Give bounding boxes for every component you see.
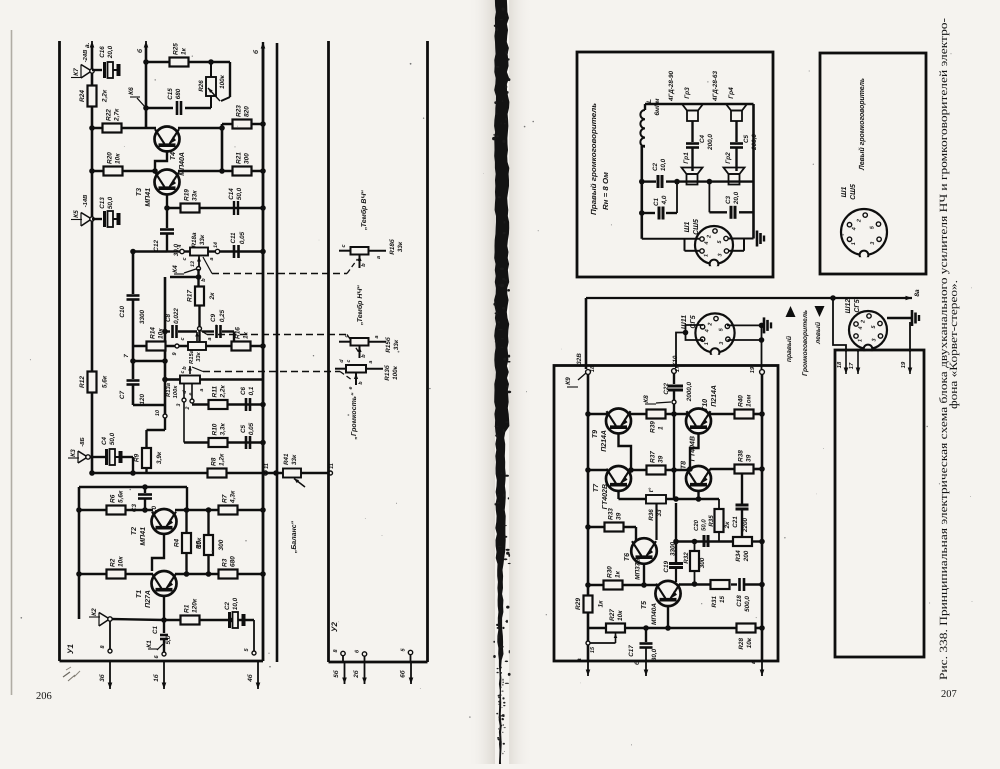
wire rail left speaker xyxy=(640,146,643,239)
svg-text:К4: К4 xyxy=(172,265,179,273)
node 11 right xyxy=(329,471,333,475)
wire xyxy=(625,627,737,630)
svg-text:фона «Корвет-стерео».: фона «Корвет-стерео». xyxy=(948,280,960,409)
svg-text:R23: R23 xyxy=(236,105,243,117)
wire xyxy=(132,457,134,473)
pin 18 arrow xyxy=(845,352,847,374)
svg-text:Ш1: Ш1 xyxy=(684,222,691,233)
svg-text:300: 300 xyxy=(218,539,225,550)
capacitor C1 with K1 xyxy=(163,620,165,633)
wire xyxy=(90,456,106,458)
transistor T3 xyxy=(155,170,180,195)
transistor T7 xyxy=(606,466,631,491)
svg-text:4ГД-28-63: 4ГД-28-63 xyxy=(712,71,719,102)
vertical wire x165 xyxy=(164,277,167,416)
svg-text:С5: С5 xyxy=(240,424,247,433)
svg-text:300: 300 xyxy=(699,557,706,568)
svg-text:2: 2 xyxy=(861,320,867,324)
wire xyxy=(167,207,263,210)
svg-text:2к: 2к xyxy=(724,521,731,530)
node 10 xyxy=(163,414,167,418)
contact K8 xyxy=(672,400,676,404)
svg-text:К9: К9 xyxy=(565,377,572,385)
svg-text:2,2к: 2,2к xyxy=(102,89,109,103)
svg-text:С7: С7 xyxy=(119,391,126,400)
svg-text:3300: 3300 xyxy=(670,542,677,557)
svg-text:R36: R36 xyxy=(648,509,655,521)
resistor R30 xyxy=(604,581,623,590)
capacitor C11 xyxy=(233,245,236,258)
wire x674 xyxy=(673,373,675,384)
svg-text:2200: 2200 xyxy=(742,518,749,534)
wire T6 base xyxy=(643,563,645,585)
wiper R13a xyxy=(189,366,191,374)
node 7 xyxy=(130,358,136,364)
svg-text:t°: t° xyxy=(648,487,655,492)
svg-text:2: 2 xyxy=(707,235,713,239)
svg-text:R33: R33 xyxy=(608,508,615,520)
node 6 u2 xyxy=(362,652,366,656)
svg-text:10к: 10к xyxy=(746,637,753,648)
svg-text:С6: С6 xyxy=(240,386,247,395)
svg-text:680: 680 xyxy=(230,556,237,567)
wire T1 base xyxy=(163,595,165,620)
svg-text:R1: R1 xyxy=(184,604,191,613)
potentiometer R13a xyxy=(180,376,200,384)
svg-text:R10: R10 xyxy=(212,423,219,435)
svg-text:120к: 120к xyxy=(192,598,199,613)
svg-text:0,25: 0,25 xyxy=(219,309,226,322)
svg-text:33к: 33к xyxy=(195,351,202,361)
resistor R28 xyxy=(737,624,756,633)
svg-text:120: 120 xyxy=(139,394,146,405)
wire rail right xyxy=(752,104,755,239)
inductor L xyxy=(644,104,646,110)
block left speaker border xyxy=(820,53,926,274)
svg-text:R6: R6 xyxy=(110,494,117,503)
svg-text:a: a xyxy=(376,256,382,259)
svg-text:4: 4 xyxy=(858,327,864,331)
svg-text:20,0: 20,0 xyxy=(107,45,114,59)
svg-text:20,0: 20,0 xyxy=(733,191,740,205)
svg-text:С19: С19 xyxy=(663,561,670,573)
wire xyxy=(92,170,156,173)
svg-text:„Тембр НЧ“: „Тембр НЧ“ xyxy=(356,285,364,326)
wire row1 xyxy=(588,413,607,416)
resistor R9 xyxy=(145,430,147,448)
svg-text:18: 18 xyxy=(589,365,596,372)
ground Sh12 xyxy=(887,317,912,319)
wire xyxy=(184,441,263,444)
svg-text:13: 13 xyxy=(190,261,196,267)
resistor R2 xyxy=(107,570,126,579)
capacitor C10 xyxy=(132,252,135,295)
svg-text:19: 19 xyxy=(900,361,907,368)
capacitor C14 xyxy=(233,201,235,215)
svg-text:L: L xyxy=(646,99,653,103)
capacitor C16 xyxy=(92,69,102,71)
svg-text:R16: R16 xyxy=(235,327,242,339)
capacitor C22 xyxy=(668,385,683,388)
resistor R23 xyxy=(233,120,252,129)
wire xyxy=(147,472,264,475)
wire right rail amp xyxy=(761,374,764,661)
svg-text:-24В: -24В xyxy=(82,50,89,63)
wire xyxy=(178,170,263,173)
capacitor C12 xyxy=(166,222,168,228)
svg-text:Т2: Т2 xyxy=(131,527,138,535)
wire xyxy=(679,583,710,586)
label pravyi arrow xyxy=(786,306,796,317)
wire row2 xyxy=(588,469,607,472)
resistor R12 xyxy=(88,372,97,393)
pin b arrow xyxy=(645,648,647,677)
pin 19 arrow xyxy=(909,352,911,374)
transistor T4 xyxy=(155,127,180,152)
contact K3 xyxy=(86,455,90,459)
label levyi arrow xyxy=(815,306,825,317)
svg-text:33к: 33к xyxy=(192,190,199,201)
svg-text:5,6к: 5,6к xyxy=(102,375,109,388)
svg-text:1: 1 xyxy=(658,426,665,430)
wire xyxy=(175,509,263,512)
pin 5b arrow xyxy=(342,656,344,662)
svg-text:6б: 6б xyxy=(400,669,407,678)
svg-text:Т8: Т8 xyxy=(681,461,688,469)
svg-text:С3: С3 xyxy=(131,504,138,513)
wire T3 base xyxy=(166,194,168,222)
connector Sh1 left box xyxy=(841,209,887,255)
svg-text:2: 2 xyxy=(857,219,863,223)
block right speaker border xyxy=(577,52,773,277)
wire xyxy=(192,403,263,406)
svg-text:С2: С2 xyxy=(652,162,659,171)
gutter shading left xyxy=(468,0,495,764)
wire x676 down xyxy=(675,503,677,563)
svg-text:a: a xyxy=(374,335,380,338)
wire top xyxy=(645,103,754,106)
svg-text:R34: R34 xyxy=(735,550,742,562)
node a arrow top xyxy=(91,41,93,58)
svg-text:„Громкость“: „Громкость“ xyxy=(351,392,358,440)
svg-text:R21: R21 xyxy=(236,152,243,164)
svg-text:4: 4 xyxy=(705,329,711,333)
svg-text:100к: 100к xyxy=(392,365,399,380)
node 6 xyxy=(162,652,166,656)
svg-text:50,0: 50,0 xyxy=(109,432,116,445)
svg-text:R40: R40 xyxy=(738,395,745,407)
node 8 u2 xyxy=(341,651,345,655)
wire xyxy=(642,238,700,240)
wire row3 R33 xyxy=(588,526,636,529)
wire balance xyxy=(263,472,328,475)
resistor R32 xyxy=(694,542,696,552)
svg-text:R22: R22 xyxy=(106,109,113,121)
svg-text:0,1: 0,1 xyxy=(248,386,255,395)
transistor T2 xyxy=(152,509,177,534)
svg-text:У2: У2 xyxy=(330,622,339,632)
svg-text:3: 3 xyxy=(870,242,876,245)
svg-text:1,2к: 1,2к xyxy=(219,453,226,466)
svg-text:820: 820 xyxy=(244,106,251,117)
speaker Gr1 xyxy=(682,168,703,175)
wire emitter node row xyxy=(676,540,733,542)
svg-text:1: 1 xyxy=(704,342,710,345)
svg-text:С10: С10 xyxy=(119,306,126,318)
resistor R31 xyxy=(711,580,730,589)
svg-text:R26: R26 xyxy=(198,80,205,92)
svg-text:c: c xyxy=(346,359,352,362)
svg-text:3: 3 xyxy=(719,342,725,345)
contact K7 xyxy=(90,69,94,73)
svg-text:R31: R31 xyxy=(711,596,718,608)
capacitor C2 speaker xyxy=(657,175,660,188)
svg-text:Т4: Т4 xyxy=(170,152,177,160)
svg-text:2б: 2б xyxy=(353,669,360,679)
capacitor C15 xyxy=(146,107,173,109)
svg-text:50,0: 50,0 xyxy=(701,519,708,531)
svg-text:0,05: 0,05 xyxy=(248,422,255,435)
svg-text:Правый громкоговоритель: Правый громкоговоритель xyxy=(589,103,598,215)
svg-text:R29: R29 xyxy=(575,598,582,610)
svg-text:Т7: Т7 xyxy=(593,483,600,492)
transistor T1 xyxy=(152,571,177,596)
svg-text:R19: R19 xyxy=(184,189,191,201)
svg-text:С3: С3 xyxy=(725,195,732,204)
svg-text:Гр2: Гр2 xyxy=(725,152,732,164)
svg-text:К3: К3 xyxy=(70,449,77,457)
svg-text:R9: R9 xyxy=(134,453,141,462)
svg-text:П214А: П214А xyxy=(711,385,718,407)
capacitor C7 xyxy=(132,361,135,379)
svg-text:К1: К1 xyxy=(146,640,153,648)
capacitor C21 xyxy=(741,473,743,504)
svg-text:„Баланс“: „Баланс“ xyxy=(291,520,298,554)
wire T4 base xyxy=(155,150,167,171)
wire xyxy=(110,619,164,620)
svg-text:10к: 10к xyxy=(158,328,165,339)
contact K2 xyxy=(108,617,112,621)
svg-text:СШ5: СШ5 xyxy=(850,184,857,200)
wire T10 base xyxy=(690,433,699,469)
svg-text:К5: К5 xyxy=(73,210,80,218)
wire node b xyxy=(170,276,199,279)
svg-text:Т3: Т3 xyxy=(136,188,143,196)
svg-text:300: 300 xyxy=(244,153,251,164)
svg-text:11: 11 xyxy=(264,463,270,469)
resistor R24 xyxy=(88,86,97,107)
resistor R1 xyxy=(181,616,200,625)
svg-text:1ом: 1ом xyxy=(746,394,753,407)
svg-text:2,2к: 2,2к xyxy=(220,384,227,398)
svg-text:С20: С20 xyxy=(693,519,700,531)
svg-text:правый: правый xyxy=(785,335,793,362)
svg-text:R20: R20 xyxy=(107,152,114,164)
svg-text:R15а: R15а xyxy=(189,349,195,364)
svg-text:3: 3 xyxy=(176,403,182,406)
wire xyxy=(79,509,153,512)
potentiometer R15a xyxy=(188,342,206,350)
potentiometer R15b xyxy=(351,338,369,346)
svg-text:С15: С15 xyxy=(167,88,174,100)
node 14 xyxy=(208,250,215,252)
svg-text:a: a xyxy=(207,337,213,340)
capacitor C13 xyxy=(92,218,102,220)
resistor R17 xyxy=(195,287,204,306)
svg-text:33к: 33к xyxy=(397,241,404,252)
wire T5 base xyxy=(667,606,669,628)
svg-text:a.: a. xyxy=(84,42,91,48)
resistor R33 xyxy=(605,523,624,532)
wire R25 to R26 loop xyxy=(229,62,231,97)
svg-text:Ш12: Ш12 xyxy=(845,299,852,314)
svg-text:10к: 10к xyxy=(617,610,624,621)
wire xyxy=(133,250,167,253)
svg-text:К2: К2 xyxy=(91,608,98,616)
svg-text:Т1: Т1 xyxy=(136,590,143,598)
svg-text:R18а: R18а xyxy=(191,232,198,248)
svg-text:ГТ404В: ГТ404В xyxy=(690,436,697,461)
speaker Gr3 xyxy=(682,104,703,111)
node 8 xyxy=(108,649,112,653)
wire xyxy=(92,127,156,130)
block U3 border xyxy=(554,366,778,662)
svg-text:4,3к: 4,3к xyxy=(230,490,237,504)
potentiometer R41 xyxy=(283,469,301,478)
wire xyxy=(133,345,263,348)
node 18 xyxy=(586,370,591,375)
pin 2b arrow xyxy=(364,656,366,662)
transistor T9 xyxy=(606,409,631,434)
svg-text:К6: К6 xyxy=(128,87,135,95)
resistor R4 xyxy=(185,510,187,533)
gutter shading right xyxy=(509,0,533,764)
contact K5 xyxy=(90,217,94,221)
block U4 border xyxy=(835,350,924,657)
svg-text:207: 207 xyxy=(941,689,957,700)
svg-text:3,9к: 3,9к xyxy=(156,451,163,464)
svg-text:1: 1 xyxy=(851,242,857,245)
node 3 xyxy=(182,398,186,402)
dashed link to R15b xyxy=(200,330,207,335)
svg-text:а: а xyxy=(576,658,583,662)
svg-text:33к: 33к xyxy=(291,454,298,465)
svg-text:1: 1 xyxy=(858,339,864,342)
pin 6b arrow xyxy=(410,655,412,662)
svg-text:-32В: -32В xyxy=(576,353,583,367)
svg-text:3: 3 xyxy=(718,254,724,257)
svg-text:30,0: 30,0 xyxy=(651,648,658,661)
svg-text:СГ5: СГ5 xyxy=(854,299,861,312)
svg-text:С9: С9 xyxy=(210,313,217,322)
svg-text:R4: R4 xyxy=(174,538,181,547)
resistor R34 xyxy=(733,537,752,546)
resistor R39 xyxy=(647,410,666,419)
svg-text:R2: R2 xyxy=(110,558,117,567)
svg-text:4: 4 xyxy=(852,227,858,231)
svg-text:R24: R24 xyxy=(79,90,86,102)
svg-text:18: 18 xyxy=(836,361,843,368)
svg-text:2к: 2к xyxy=(209,292,216,301)
svg-text:33к: 33к xyxy=(393,339,400,350)
svg-text:200: 200 xyxy=(743,550,750,562)
svg-text:R11: R11 xyxy=(212,386,219,398)
resistor R40 xyxy=(735,410,754,419)
ground Sh11 xyxy=(763,317,766,333)
wire T7 base xyxy=(617,490,619,499)
svg-text:100к: 100к xyxy=(172,385,179,399)
resistor R3 xyxy=(219,570,238,579)
wire top bus 8a xyxy=(586,297,912,299)
svg-text:Громкоговоритель: Громкоговоритель xyxy=(802,310,809,376)
transistor T8 xyxy=(686,466,711,491)
svg-text:17: 17 xyxy=(849,362,855,369)
svg-text:СГ5: СГ5 xyxy=(690,315,697,328)
svg-text:14: 14 xyxy=(213,242,219,248)
svg-text:-14В: -14В xyxy=(83,195,89,208)
capacitor C2 xyxy=(228,612,231,628)
svg-text:МП40А: МП40А xyxy=(651,603,658,625)
pin 3b arrow xyxy=(109,661,111,689)
node 9 xyxy=(175,344,179,348)
svg-text:R25: R25 xyxy=(173,43,180,55)
svg-text:c: c xyxy=(180,337,186,340)
svg-text:Т6: Т6 xyxy=(624,553,631,561)
resistor R19 xyxy=(181,204,200,213)
capacitor C19 xyxy=(669,562,683,565)
resistor R11 xyxy=(209,400,228,409)
transistor T5 xyxy=(655,581,680,606)
svg-text:6мГм: 6мГм xyxy=(654,98,661,115)
svg-text:4,0: 4,0 xyxy=(661,195,668,205)
resistor R16 xyxy=(232,342,251,351)
svg-text:R12: R12 xyxy=(79,376,86,388)
svg-text:10к: 10к xyxy=(115,153,122,164)
dashed link to R18b xyxy=(203,257,212,274)
wire xyxy=(79,573,153,576)
svg-text:С14: С14 xyxy=(228,188,235,200)
svg-text:39: 39 xyxy=(658,455,665,463)
capacitor C4 speaker xyxy=(691,121,693,142)
svg-text:С4: С4 xyxy=(101,436,108,445)
svg-text:R15б: R15б xyxy=(385,336,392,353)
resistor R21 xyxy=(233,167,252,176)
svg-text:3,3к: 3,3к xyxy=(220,422,227,435)
svg-text:a: a xyxy=(199,388,205,391)
svg-text:Rн = 8 Ом: Rн = 8 Ом xyxy=(601,171,610,210)
resistor R22 xyxy=(103,124,122,133)
resistor R29 xyxy=(584,596,593,613)
wire xyxy=(178,127,222,130)
svg-text:R5: R5 xyxy=(196,540,203,549)
svg-text:-8Б: -8Б xyxy=(79,437,86,446)
svg-text:R13б: R13б xyxy=(384,364,391,381)
speaker Gr4 xyxy=(726,104,747,111)
wire mid xyxy=(642,180,656,182)
svg-text:5б: 5б xyxy=(333,669,340,678)
wire xyxy=(175,573,263,576)
node 19 xyxy=(760,370,765,375)
wire xyxy=(164,619,181,621)
page edge shadow left xyxy=(11,30,13,695)
svg-text:Гр4: Гр4 xyxy=(728,87,735,99)
svg-text:„Тембр ВЧ“: „Тембр ВЧ“ xyxy=(360,190,368,231)
svg-text:15: 15 xyxy=(719,596,726,604)
svg-text:c: c xyxy=(344,334,350,337)
svg-text:50,0: 50,0 xyxy=(107,196,114,209)
svg-text:R17: R17 xyxy=(187,290,194,302)
wiper R15a xyxy=(196,332,198,341)
